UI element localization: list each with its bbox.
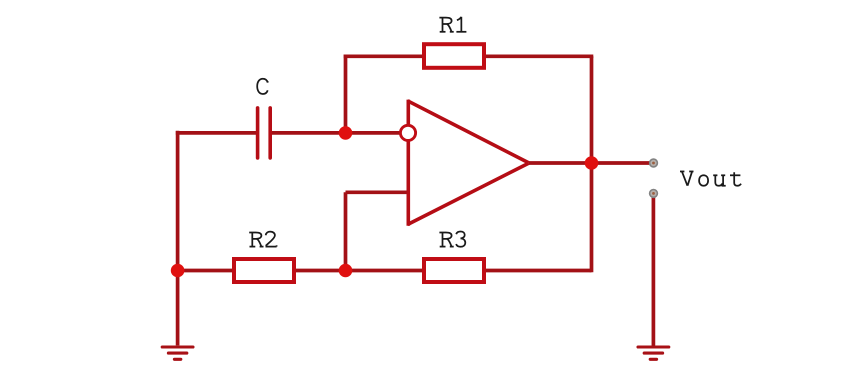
- wire: non-inverting horizontal into op-amp: [346, 190, 409, 194]
- label R3: [439, 232, 465, 247]
- op-amp U1 triangle: [408, 101, 529, 225]
- output node: [585, 156, 599, 170]
- wire: bottom rail from junction B to R3: [346, 269, 425, 273]
- wire: junction A to op-amp bubble: [346, 131, 401, 135]
- wire: bottom rail from R3 to bottom-right corner: [484, 269, 592, 273]
- capacitor C plates: [258, 108, 271, 158]
- wire: feedback vertical from junction A up to top rail: [344, 55, 348, 133]
- junction node (left, bottom rail): [171, 264, 185, 278]
- output terminal (lower): [650, 190, 658, 198]
- resistor R1: [424, 44, 484, 68]
- wire: op-amp output to node and terminal: [529, 161, 651, 165]
- label Vout: [680, 171, 741, 185]
- output terminal (upper): [650, 159, 658, 167]
- wire: right vertical from output node down to bottom rail: [590, 163, 594, 272]
- wire: non-inverting vertical from junction B up: [344, 192, 348, 270]
- wire: right vertical from top rail down to output node: [590, 56, 594, 163]
- op-amp inverting input bubble: [400, 125, 415, 140]
- wire: input left horizontal to capacitor: [176, 131, 258, 135]
- wire: bottom rail left segment to R2: [178, 269, 234, 273]
- wire: left vertical from input down to ground: [176, 131, 180, 346]
- label C: [257, 79, 268, 94]
- resistor R2: [234, 259, 294, 282]
- wire: bottom rail from R2 to junction B: [294, 269, 346, 273]
- junction node B (non-inverting tap): [339, 264, 353, 278]
- wire: capacitor to inverting-input junction: [270, 131, 346, 135]
- wire: top rail right segment from R1 to corner: [484, 54, 593, 58]
- junction node A (inverting input): [339, 126, 353, 140]
- label R1: [439, 17, 466, 32]
- ground (right): [638, 347, 669, 359]
- ground (left): [162, 347, 193, 359]
- wire: from lower terminal down to right ground: [652, 197, 656, 346]
- label R2: [249, 232, 276, 247]
- resistor R3: [424, 259, 484, 282]
- wire: top rail left segment to R1: [344, 54, 424, 58]
